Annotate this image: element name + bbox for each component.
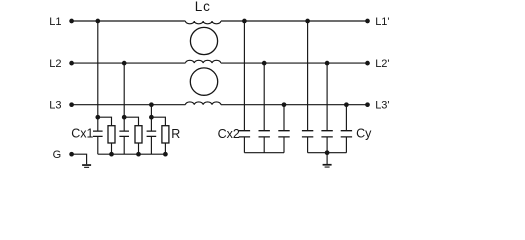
junction R2/bus [136, 152, 141, 157]
wire L1 right segment [221, 20, 368, 22]
ground symbol (Cy bus) [323, 164, 332, 166]
junction L1/Cya [305, 19, 310, 24]
junction L3/Cx2c [282, 102, 287, 107]
junction Cy bus/ground [325, 150, 330, 155]
terminal L2' [365, 61, 370, 66]
terminal L1 [69, 19, 74, 24]
inductor Lc winding 3 (L3 row) [185, 102, 221, 105]
capacitor Cx1a bottom lead [97, 137, 99, 154]
junction Cx1a/R1 split [95, 115, 100, 120]
svg-text:Cx2: Cx2 [218, 127, 240, 141]
capacitor Cx2c plates [278, 131, 289, 137]
capacitor Cx1c plates [147, 131, 157, 136]
capacitor Cya top lead [307, 21, 309, 130]
wire Cx2 star bus [244, 152, 284, 154]
capacitor Cx1b top lead [123, 117, 125, 130]
wire R1 branch [98, 117, 112, 126]
wire Cx1b drop from L2 [123, 63, 125, 117]
terminal L3 [69, 102, 74, 107]
inductor Lc core circle 1 [190, 27, 217, 54]
junction L3/Cyc [344, 102, 349, 107]
inductor Lc winding 2 (L2 row) [185, 60, 221, 63]
capacitor Cx1c bottom lead [150, 137, 152, 154]
junction L1/Cx1a [95, 19, 100, 24]
capacitor Cx1c top lead [150, 117, 152, 130]
wire L3 right segment [221, 104, 368, 106]
wire R1 bottom lead [111, 143, 113, 154]
junction R1/bus [109, 152, 114, 157]
capacitor Cx2a top lead [243, 21, 245, 130]
ground symbol (G terminal) [82, 164, 91, 166]
junction L1/Cx2a [242, 19, 247, 24]
capacitor Cyc bottom lead [345, 138, 347, 153]
svg-text:L2': L2' [375, 58, 389, 70]
svg-text:Lc: Lc [195, 0, 211, 14]
wire Cx1c drop from L3 [150, 105, 152, 118]
wire R2 branch [124, 117, 138, 126]
capacitor Cyb top lead [326, 63, 328, 130]
svg-text:L1': L1' [375, 16, 389, 28]
capacitor Cx2c bottom lead [283, 138, 285, 153]
resistor R2 [135, 126, 142, 143]
resistor R3 [162, 126, 169, 143]
capacitor Cx1b bottom lead [123, 137, 125, 154]
wire L2 left segment [72, 62, 186, 64]
junction Cx1c/R3 split [149, 115, 154, 120]
svg-text:R: R [171, 127, 180, 141]
resistor R1 [108, 126, 115, 143]
wire R2 bottom lead [138, 143, 140, 154]
capacitor Cx2b plates [259, 131, 270, 137]
svg-text:G: G [53, 149, 62, 161]
terminal L1' [365, 19, 370, 24]
wire L2 right segment [221, 62, 368, 64]
junction L2/Cx1b [122, 61, 127, 66]
svg-text:L1: L1 [49, 16, 61, 28]
junction L2/Cyb [325, 61, 330, 66]
capacitor Cya plates [302, 131, 313, 137]
terminal L3' [365, 102, 370, 107]
capacitor Cya bottom lead [307, 138, 309, 153]
inductor Lc winding 1 (L1 row) [185, 21, 221, 24]
capacitor Cx2c top lead [283, 105, 285, 130]
capacitor Cyb plates [321, 131, 332, 137]
wire R3 bottom lead [164, 143, 166, 154]
wire Cy bus to ground [326, 153, 328, 164]
wire L1 left segment [72, 20, 186, 22]
capacitor Cx2b top lead [263, 63, 265, 130]
capacitor Cx1a top lead [97, 117, 99, 130]
wire G to ground [72, 154, 87, 164]
junction R3/bus [163, 152, 168, 157]
svg-text:Cx1: Cx1 [71, 127, 93, 141]
svg-text:L2: L2 [49, 58, 61, 70]
wire L3 left segment [72, 104, 186, 106]
capacitor Cx1b plates [119, 131, 129, 136]
terminal G [69, 152, 74, 157]
capacitor Cx2b bottom lead [263, 138, 265, 153]
capacitor Cyb bottom lead [326, 138, 328, 153]
svg-text:L3': L3' [375, 100, 389, 112]
capacitor Cyc top lead [345, 105, 347, 130]
junction Cx1b/R2 split [122, 115, 127, 120]
junction L2/Cx2b [262, 61, 267, 66]
wire R3 branch [151, 117, 165, 126]
inductor Lc core circle 2 [190, 68, 217, 95]
terminal L2 [69, 61, 74, 66]
capacitor Cx1a plates [93, 131, 103, 136]
svg-text:Cy: Cy [356, 127, 372, 141]
capacitor Cx2a bottom lead [243, 138, 245, 153]
junction L3/Cx1c [149, 102, 154, 107]
capacitor Cx2a plates [239, 131, 250, 137]
wire Cy star bus [308, 152, 347, 154]
wire Cx1 star bus [98, 153, 166, 155]
capacitor Cyc plates [341, 131, 352, 137]
wire Cx1a drop from L1 [97, 21, 99, 117]
svg-text:L3: L3 [49, 100, 61, 112]
